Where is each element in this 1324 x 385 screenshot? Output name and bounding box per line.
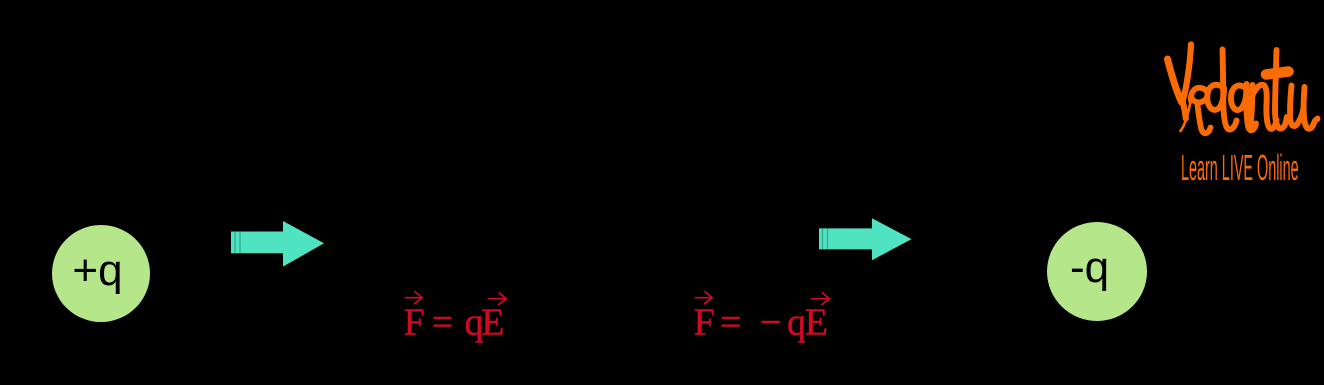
- svg-text:F=−qE: F=−qE: [694, 302, 828, 344]
- d bowl: [1207, 85, 1224, 110]
- vector arrow over E: [488, 292, 507, 305]
- a stem + exit bump: [1246, 84, 1256, 130]
- d ascender + exit bump: [1223, 50, 1237, 130]
- vector arrow over E: [811, 292, 830, 305]
- formula F = qE (vector arrows drawn in SVG): [395, 285, 525, 350]
- n left leg: [1251, 85, 1253, 126]
- svg-text:F=qE: F=qE: [404, 302, 505, 344]
- V left arm: [1168, 59, 1182, 102]
- arrow 1 (force on +q): [221, 211, 333, 277]
- u first stroke: [1290, 86, 1303, 126]
- vector arrow over F: [695, 291, 712, 304]
- a bowl: [1231, 86, 1247, 110]
- n arch + right leg: [1252, 85, 1277, 129]
- t stem + hook: [1275, 50, 1287, 129]
- vector arrow over F: [405, 291, 422, 304]
- charge +q: [52, 225, 150, 322]
- u second stroke + tail: [1304, 87, 1318, 129]
- t crossbar: [1266, 72, 1289, 75]
- formula F = -qE: [685, 285, 845, 350]
- arrow 2 (force on -q): [809, 207, 921, 273]
- charge -q: [1047, 222, 1147, 321]
- e lead-in: [1181, 101, 1191, 131]
- e tail bump: [1198, 105, 1211, 133]
- svg-text:Learn LIVE Online: Learn LIVE Online: [1181, 147, 1299, 188]
- e loop: [1191, 88, 1208, 103]
- vedantu logo wordmark: [1160, 40, 1324, 190]
- V right arm with tail: [1183, 45, 1192, 119]
